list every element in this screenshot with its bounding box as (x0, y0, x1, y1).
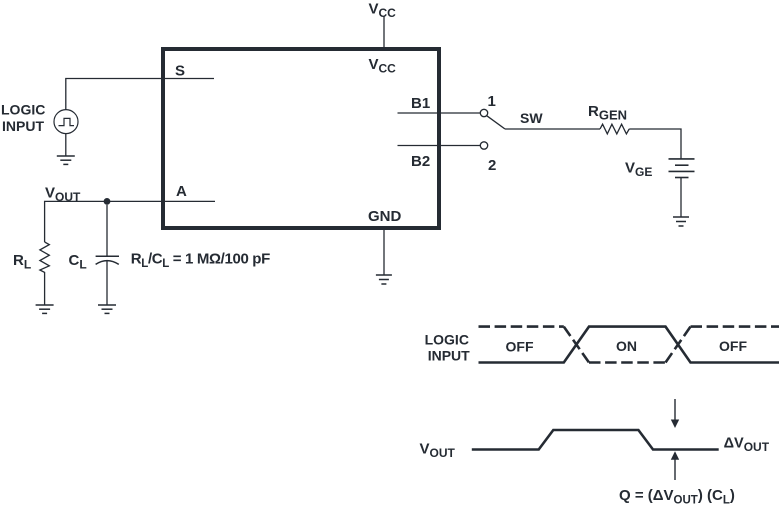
svg-text:RL: RL (13, 252, 31, 272)
svg-text:S: S (175, 63, 185, 80)
svg-text:SW: SW (520, 110, 543, 126)
svg-text:LOGIC: LOGIC (425, 332, 469, 348)
svg-text:OFF: OFF (506, 339, 534, 355)
svg-text:ΔVOUT: ΔVOUT (724, 436, 770, 455)
svg-text:INPUT: INPUT (428, 347, 470, 363)
svg-text:VOUT: VOUT (420, 441, 456, 461)
svg-text:GND: GND (368, 208, 402, 225)
svg-text:A: A (176, 183, 187, 200)
svg-text:RL/CL = 1 MΩ/100 pF: RL/CL = 1 MΩ/100 pF (131, 251, 270, 271)
svg-text:CL: CL (69, 252, 87, 272)
svg-text:1: 1 (488, 93, 496, 110)
svg-text:ON: ON (616, 338, 637, 354)
svg-text:RGEN: RGEN (588, 103, 627, 123)
svg-text:VCC: VCC (369, 1, 397, 21)
svg-text:VGE: VGE (625, 160, 652, 180)
svg-text:VCC: VCC (369, 56, 397, 76)
svg-text:INPUT: INPUT (2, 118, 44, 134)
svg-text:2: 2 (488, 157, 496, 174)
svg-text:OFF: OFF (719, 338, 747, 354)
svg-text:B1: B1 (411, 95, 430, 112)
svg-text:LOGIC: LOGIC (1, 102, 45, 118)
svg-text:VOUT: VOUT (45, 185, 81, 205)
svg-text:B2: B2 (411, 153, 430, 170)
svg-text:Q = (ΔVOUT) (CL): Q = (ΔVOUT) (CL) (619, 487, 735, 505)
